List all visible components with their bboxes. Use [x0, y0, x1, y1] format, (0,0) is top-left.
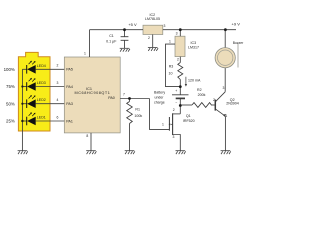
svg-text:−: −	[175, 100, 177, 104]
svg-text:200k: 200k	[198, 93, 206, 97]
svg-text:2: 2	[173, 108, 175, 112]
svg-text:100k: 100k	[134, 114, 142, 118]
svg-text:PA0: PA0	[108, 96, 115, 100]
svg-text:LED1: LED1	[37, 116, 46, 120]
svg-text:8: 8	[86, 134, 88, 138]
svg-text:6: 6	[57, 115, 59, 119]
svg-text:3: 3	[57, 81, 59, 85]
svg-text:2: 2	[213, 98, 215, 102]
svg-text:LED3: LED3	[37, 81, 46, 85]
svg-text:3: 3	[164, 24, 166, 28]
svg-text:2: 2	[177, 57, 179, 61]
svg-text:3: 3	[176, 31, 178, 35]
svg-text:PA5: PA5	[66, 68, 73, 72]
svg-text:3: 3	[222, 86, 224, 90]
svg-text:MC68HC908QT1: MC68HC908QT1	[75, 91, 111, 95]
svg-text:120 mA: 120 mA	[188, 79, 201, 83]
svg-text:LED4: LED4	[37, 64, 46, 68]
svg-text:100%: 100%	[4, 67, 15, 72]
svg-text:charge: charge	[154, 101, 165, 105]
svg-text:2: 2	[148, 36, 150, 40]
svg-text:PA4: PA4	[66, 85, 73, 89]
svg-text:R3: R3	[169, 65, 174, 69]
svg-text:10: 10	[169, 71, 173, 75]
svg-text:LM317: LM317	[188, 46, 199, 50]
svg-text:4: 4	[57, 98, 59, 102]
svg-text:0.1 μF: 0.1 μF	[106, 39, 117, 43]
svg-text:3: 3	[172, 135, 174, 139]
svg-text:PA1: PA1	[66, 119, 73, 123]
svg-text:Q1: Q1	[186, 114, 191, 118]
svg-text:R1: R1	[135, 108, 140, 112]
svg-text:1: 1	[162, 123, 164, 127]
svg-text:Battery: Battery	[154, 91, 165, 95]
svg-text:C1: C1	[109, 34, 114, 38]
svg-text:IC3: IC3	[191, 41, 197, 45]
svg-text:2N3904: 2N3904	[226, 102, 239, 106]
svg-text:LM78L05: LM78L05	[145, 17, 160, 21]
svg-text:25%: 25%	[6, 119, 15, 124]
svg-text:LED2: LED2	[37, 98, 46, 102]
svg-text:75%: 75%	[6, 84, 15, 89]
svg-text:1: 1	[169, 40, 171, 44]
svg-text:R2: R2	[197, 88, 202, 92]
svg-text:50%: 50%	[6, 101, 15, 106]
svg-text:7: 7	[123, 92, 125, 96]
svg-text:+5 V: +5 V	[128, 22, 137, 27]
svg-text:Buzzer: Buzzer	[233, 41, 244, 45]
svg-text:1: 1	[84, 52, 86, 56]
svg-text:+: +	[175, 89, 177, 93]
svg-text:IC1: IC1	[86, 87, 92, 91]
svg-text:+9 V: +9 V	[232, 22, 241, 27]
svg-text:PA3: PA3	[66, 102, 73, 106]
svg-text:IRF520: IRF520	[183, 119, 195, 123]
svg-text:under: under	[155, 96, 165, 100]
svg-text:2: 2	[57, 64, 59, 68]
svg-text:1: 1	[225, 114, 227, 118]
